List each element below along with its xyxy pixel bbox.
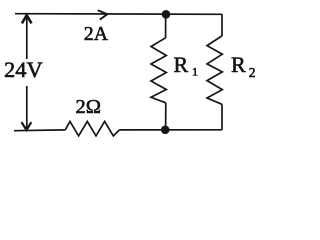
node junction top <box>162 10 171 19</box>
resistor R2 <box>207 36 222 104</box>
wire bottom right segment <box>120 129 223 131</box>
wire R1 bottom stub <box>165 103 167 130</box>
svg-text:2Ω: 2Ω <box>76 96 102 118</box>
voltage arrow head down <box>22 122 32 130</box>
svg-text:R: R <box>231 52 246 77</box>
svg-text:24V: 24V <box>4 57 43 82</box>
voltage arrow shaft lower <box>26 86 28 129</box>
wire R1 top stub <box>165 14 167 38</box>
wire top <box>15 13 222 16</box>
resistor 2 ohm <box>65 121 119 135</box>
resistor R1 <box>151 38 166 103</box>
wire right vertical bottom stub <box>221 104 223 130</box>
voltage arrow head up <box>22 15 32 23</box>
voltage arrow shaft upper <box>26 16 28 59</box>
wire right vertical top stub (R2 branch) <box>221 14 223 36</box>
svg-text:1: 1 <box>192 65 198 79</box>
svg-text:2: 2 <box>249 65 256 80</box>
svg-text:R: R <box>174 52 189 77</box>
wire bottom left segment <box>14 129 65 132</box>
svg-text:2A: 2A <box>84 23 109 45</box>
current arrow 2A head <box>98 10 108 19</box>
node junction bottom <box>161 126 170 135</box>
